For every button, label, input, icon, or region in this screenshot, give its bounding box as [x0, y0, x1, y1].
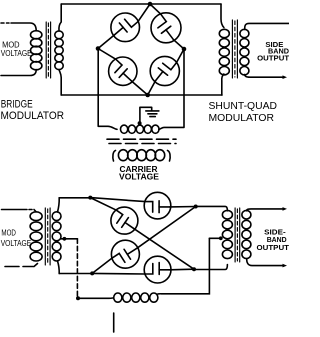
- wire: bottom rail: [61, 94, 222, 96]
- rectifier CR8 (ring, bottom arm): [144, 256, 171, 283]
- node: carrier secondary center tap: [138, 121, 142, 125]
- wire: bridge top vertex to CR1: [138, 4, 150, 22]
- carrier input coil L1 (bottom circuit): [114, 293, 122, 302]
- svg-text:VOLTAGE: VOLTAGE: [1, 49, 32, 58]
- svg-text:OUTPUT: OUTPUT: [257, 56, 289, 63]
- node B junction: [90, 271, 94, 275]
- arrowhead on output bottom: [283, 75, 288, 79]
- wire: node A to CR6: [90, 198, 116, 211]
- node C junction: [194, 205, 198, 209]
- arrowhead on output bottom (bottom circuit): [283, 264, 288, 268]
- transformer T2 primary lead bottom: [222, 74, 224, 95]
- node: bridge bottom vertex: [145, 93, 150, 98]
- wire: T1 secondary bottom to bottom rail: [59, 70, 61, 95]
- wire: node D to T5 primary bottom: [194, 265, 227, 270]
- wire: bridge right vertex to CR4: [176, 49, 184, 63]
- wire: T2 secondary output top: [245, 23, 289, 29]
- svg-text:BAND: BAND: [267, 237, 287, 244]
- wire: to carrier coil (bottom circuit): [78, 297, 114, 299]
- svg-text:MOD: MOD: [1, 229, 16, 238]
- wire: right vertex drop to carrier transformer: [159, 49, 184, 129]
- transformer T3 primary lead left: [113, 151, 116, 162]
- transformer T3 primary winding: [118, 150, 128, 161]
- svg-text:VOLTAGE: VOLTAGE: [1, 239, 32, 248]
- ground symbol: [140, 107, 152, 123]
- rectifier CR2 (bridge upper-right): [151, 13, 181, 43]
- rectifier CR3 (bridge lower-left): [109, 57, 137, 85]
- wire: bottom path left segment: [59, 273, 92, 275]
- wire: T4 secondary top lead: [58, 198, 60, 212]
- svg-text:MODULATOR: MODULATOR: [1, 110, 65, 122]
- rectifier CR4 (bridge lower-right): [150, 56, 179, 85]
- transformer T4 primary winding: [30, 212, 42, 221]
- wire: T5 secondary output bottom: [247, 259, 283, 266]
- wire: T5 secondary output top: [247, 209, 283, 211]
- wire: node B to CR7: [92, 258, 112, 274]
- wire: T2 secondary output bottom: [245, 75, 283, 78]
- transformer T2 (side band output, top circuit) primary lead top: [221, 4, 224, 28]
- svg-text:BAND: BAND: [268, 49, 289, 56]
- wire: CR3 to bridge bottom vertex: [132, 81, 148, 95]
- transformer T5 (side band output, bottom circuit) primary winding: [222, 210, 232, 219]
- wire: bridge left vertex to CR3: [98, 49, 116, 60]
- wire: T1 secondary top to top rail: [59, 4, 61, 31]
- transformer T1 (mod voltage input, top circuit) primary lead top: [1, 23, 36, 31]
- transformer T4 (mod voltage input, bottom circuit) primary lead top: [2, 210, 37, 212]
- rectifier CR1 (bridge upper-left): [111, 13, 140, 42]
- transformer T4 core: [45, 208, 50, 265]
- transformer T2 core: [232, 20, 237, 78]
- wire: T4 center tap: [61, 238, 78, 240]
- wire: top rail: [61, 3, 221, 5]
- rectifier CR6 (ring, diagonal A-D): [111, 207, 138, 234]
- wire: T4 secondary bottom lead: [58, 261, 60, 274]
- node: bridge top vertex: [148, 2, 153, 7]
- node A junction: [88, 196, 92, 200]
- wire: carrier coil right to T5 center tap drop: [158, 238, 210, 294]
- wire: CR7 to node C (crossing): [137, 207, 196, 249]
- wire: CR5 to node C: [170, 206, 196, 208]
- wire: CR6 to node D (crossing): [134, 229, 194, 270]
- svg-text:SHUNT-QUAD: SHUNT-QUAD: [209, 101, 278, 112]
- transformer T3 (carrier) secondary winding: [121, 125, 128, 133]
- wire: bridge top vertex to CR2: [150, 4, 161, 14]
- transformer T5 secondary winding: [242, 210, 251, 219]
- svg-text:VOLTAGE: VOLTAGE: [119, 172, 160, 181]
- transformer T4 primary lead bottom: [5, 264, 38, 267]
- transformer T1 secondary winding: [55, 31, 63, 39]
- wire: node A to CR5: [90, 198, 145, 202]
- transformer T2 primary winding: [219, 29, 229, 37]
- node: T4 center tap junction: [63, 237, 67, 241]
- wire: left vertex drop to carrier transformer: [98, 49, 117, 130]
- svg-text:MODULATOR: MODULATOR: [209, 112, 275, 124]
- wire: CR1 to bridge left vertex: [98, 35, 114, 49]
- carrier source lead (off-page): [113, 313, 115, 332]
- transformer T3 core: [107, 138, 176, 140]
- wire: node B to CR8: [92, 272, 145, 275]
- transformer T1 core: [46, 22, 50, 78]
- node D junction: [192, 267, 196, 271]
- wire: T5 center tap: [209, 237, 221, 239]
- transformer T3 primary lead right: [168, 151, 171, 162]
- node: carrier coil left junction: [76, 296, 80, 300]
- node: bridge right vertex: [182, 47, 187, 52]
- node: T5 center tap junction: [219, 236, 223, 240]
- wire: top path left segment: [59, 197, 90, 199]
- wire: CR4 to bridge bottom vertex: [148, 81, 156, 95]
- transformer T1 primary winding: [31, 31, 42, 39]
- rectifier CR5 (ring, top arm): [144, 192, 171, 219]
- transformer T4 secondary winding: [52, 212, 61, 221]
- svg-text:SIDE-: SIDE-: [264, 229, 286, 236]
- rectifier CR7 (ring, diagonal B-C): [111, 240, 139, 268]
- wire: CR2 to bridge right vertex: [174, 40, 185, 49]
- wire: T4 center tap drop (dashed): [76, 239, 78, 296]
- transformer T1 primary lead bottom: [1, 70, 36, 76]
- wire: CR8 to node D: [170, 268, 194, 271]
- svg-text:OUTPUT: OUTPUT: [257, 245, 290, 252]
- node: bridge left vertex: [96, 46, 101, 51]
- arrowhead on output top (bottom circuit): [283, 207, 288, 211]
- wire: node C to T5 primary top: [196, 206, 228, 210]
- transformer T5 core: [235, 208, 240, 262]
- transformer T2 secondary winding: [240, 29, 249, 37]
- svg-text:BRIDGE: BRIDGE: [1, 99, 33, 111]
